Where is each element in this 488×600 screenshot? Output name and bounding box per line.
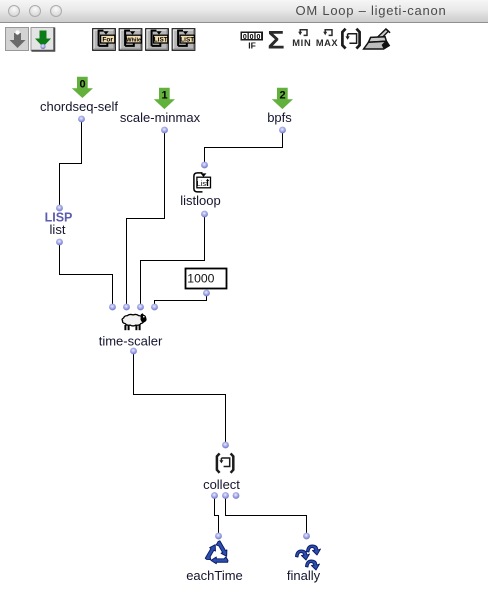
svg-text:list: list xyxy=(50,222,66,237)
window title bar xyxy=(0,0,488,23)
svg-text:LiST: LiST xyxy=(180,37,194,44)
toolbar: onlist button xyxy=(172,29,195,51)
svg-text:1000: 1000 xyxy=(187,272,214,286)
svg-text:MAX: MAX xyxy=(316,38,338,48)
svg-text:List: List xyxy=(197,179,209,188)
svg-text:2: 2 xyxy=(280,90,286,102)
collect box xyxy=(203,442,240,499)
wire chordseq-self to list xyxy=(60,119,82,208)
toolbar: min icon xyxy=(292,30,311,48)
svg-text:bpfs: bpfs xyxy=(267,110,292,125)
svg-text:collect: collect xyxy=(203,477,240,492)
toolbar: forloop button xyxy=(93,29,116,51)
svg-text:MIN: MIN xyxy=(292,38,311,48)
input box 1 scale-minmax xyxy=(120,88,201,134)
svg-text:0: 0 xyxy=(80,79,86,91)
traffic light button zoom xyxy=(50,5,62,17)
wire list to time-scaler in1 xyxy=(60,242,113,307)
eachTime box xyxy=(186,533,243,583)
svg-text:eachTime: eachTime xyxy=(186,568,243,583)
toolbar: eval-once button (grey arrow) xyxy=(6,28,29,51)
traffic light button close xyxy=(8,5,20,17)
svg-text:listloop: listloop xyxy=(180,193,220,208)
input box 0 chordseq-self xyxy=(40,77,118,123)
svg-text:1: 1 xyxy=(162,90,168,102)
svg-text:0: 0 xyxy=(256,34,260,41)
svg-text:While: While xyxy=(126,37,141,43)
traffic light button minimize xyxy=(29,5,41,17)
svg-text:time-scaler: time-scaler xyxy=(99,334,163,349)
input box 2 bpfs xyxy=(267,88,293,134)
listloop box xyxy=(180,162,220,218)
svg-text:0: 0 xyxy=(243,34,247,41)
toolbar: counter icon xyxy=(241,32,264,51)
wire time-scaler to collect xyxy=(134,351,226,445)
toolbar: listloop button xyxy=(146,29,169,51)
lisp function box list xyxy=(45,205,73,246)
svg-text:For: For xyxy=(102,37,113,44)
wire listloop to time-scaler in3 xyxy=(141,214,205,307)
finally box xyxy=(287,533,321,583)
svg-text:chordseq-self: chordseq-self xyxy=(40,99,118,114)
time-scaler patch box xyxy=(99,304,163,355)
toolbar: accumulator icon xyxy=(364,29,391,49)
svg-text:scale-minmax: scale-minmax xyxy=(120,110,201,125)
window title xyxy=(295,3,447,18)
wire collect to eachTime xyxy=(215,495,219,536)
toolbar: collect icon xyxy=(342,29,359,49)
svg-text:finally: finally xyxy=(287,568,321,583)
svg-text:Σ: Σ xyxy=(268,27,285,55)
toolbar: sum icon xyxy=(268,27,285,55)
svg-text:IF: IF xyxy=(248,41,256,51)
svg-text:LiST: LiST xyxy=(154,37,168,44)
wire bpfs to listloop xyxy=(205,130,283,165)
wire collect to finally xyxy=(226,495,307,536)
toolbar: max icon xyxy=(316,30,338,48)
number box 1000 xyxy=(186,269,227,297)
toolbar: whileloop button xyxy=(119,29,142,51)
toolbar: eval button (green arrow) xyxy=(31,28,54,51)
wire scale-minmax to time-scaler in2 xyxy=(127,130,165,307)
wire 1000 to time-scaler in4 xyxy=(155,293,207,307)
